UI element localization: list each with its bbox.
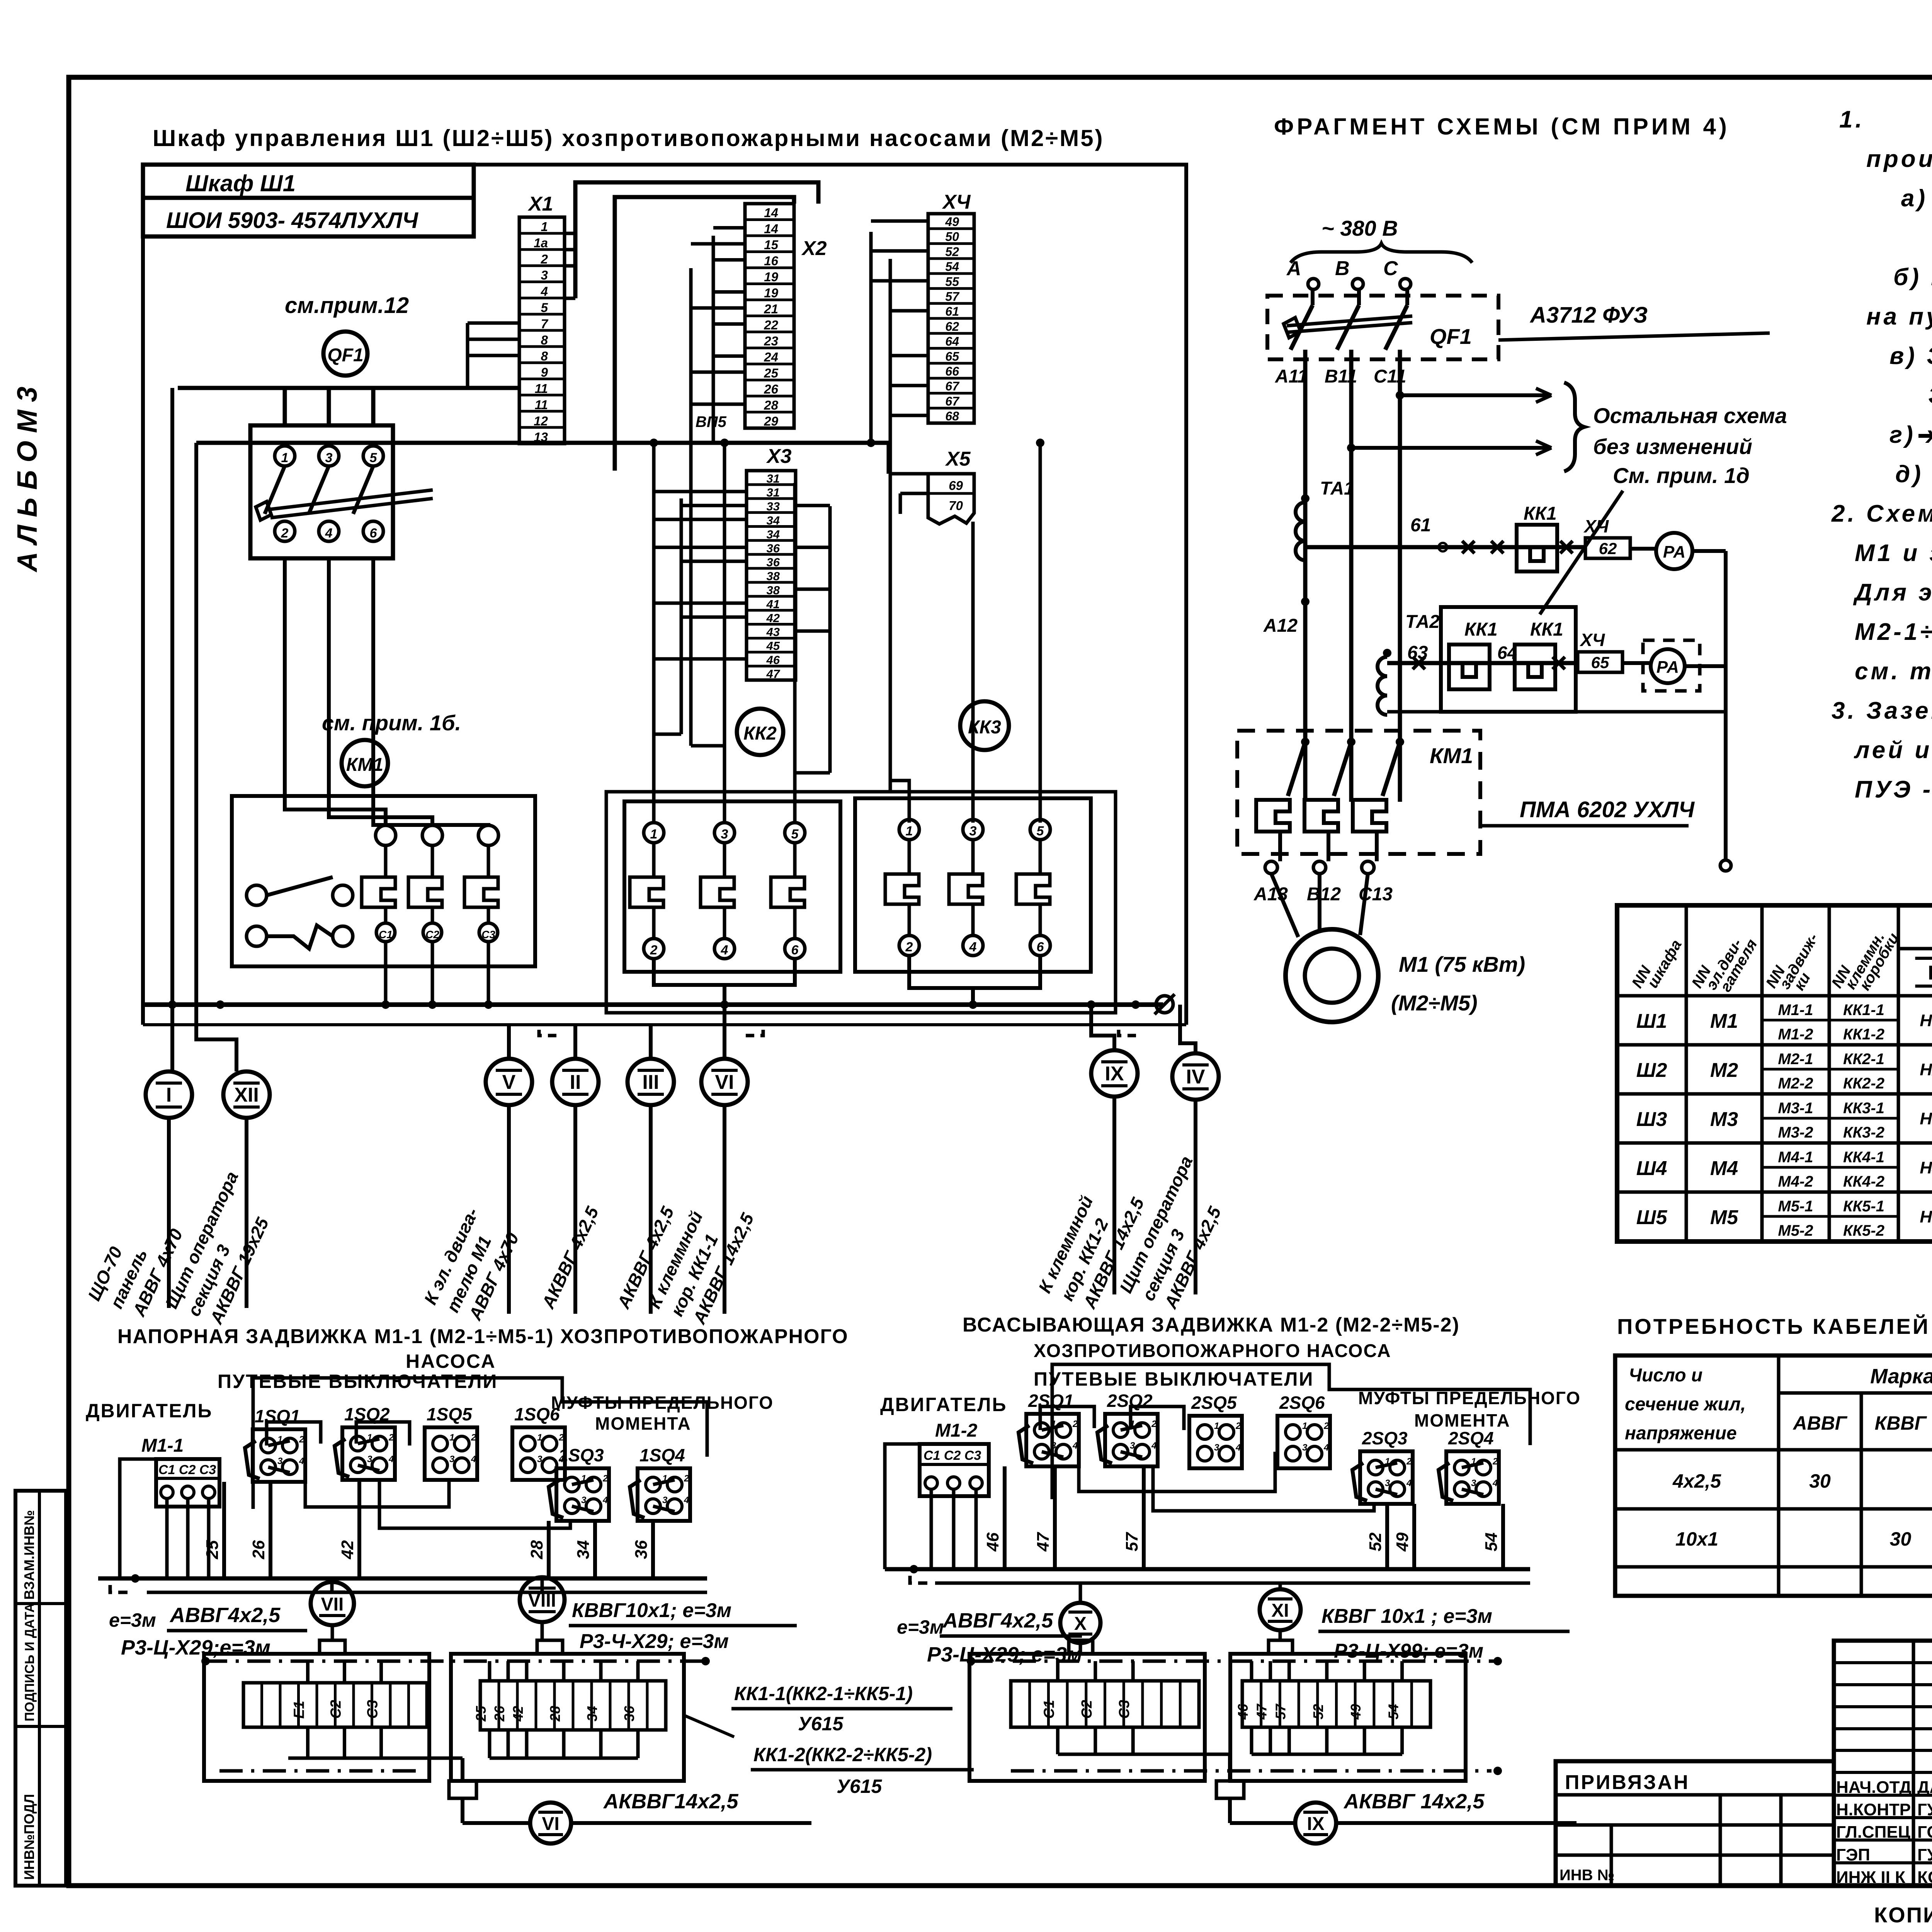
QF1 pole 1 — [275, 446, 295, 466]
numbered drop wires — [222, 1482, 226, 1578]
KK2 pole 3-4 — [714, 823, 735, 843]
svg-text:Н.КОНТР: Н.КОНТР — [1836, 1800, 1911, 1819]
svg-text:70: 70 — [949, 498, 963, 513]
svg-text:3: 3 — [325, 451, 333, 465]
svg-text:50: 50 — [945, 230, 959, 244]
cable circle VI low — [530, 1803, 571, 1844]
svg-text:ШОИ 5903- 4574ЛУХЛЧ: ШОИ 5903- 4574ЛУХЛЧ — [166, 208, 419, 233]
svg-text:57: 57 — [945, 290, 960, 304]
wire long horizontal feeder — [196, 441, 889, 445]
svg-text:ХЧ: ХЧ — [1583, 516, 1609, 536]
X1 right stub wires — [565, 232, 575, 235]
svg-text:КК1: КК1 — [1530, 619, 1563, 640]
svg-text:2: 2 — [281, 526, 289, 541]
svg-text:54: 54 — [1482, 1532, 1501, 1551]
svg-text:2: 2 — [1151, 1419, 1157, 1429]
svg-text:М2: М2 — [1710, 1059, 1738, 1082]
breaker QF1 box — [250, 425, 393, 558]
svg-text:36: 36 — [621, 1706, 637, 1721]
KM1 aux contact NO — [247, 885, 267, 905]
svg-text:57: 57 — [1122, 1532, 1141, 1551]
svg-text:д) закоротить концы 61-62, 63-: д) закоротить концы 61-62, 63-65; — [1895, 461, 1932, 488]
svg-text:61: 61 — [1410, 515, 1431, 536]
breaker QF1 designator circle — [323, 332, 367, 376]
svg-text:Н2: Н2 — [1920, 1060, 1932, 1079]
svg-text:55: 55 — [945, 275, 959, 289]
box4 wires — [1250, 1661, 1253, 1681]
svg-text:54: 54 — [945, 260, 959, 274]
svg-text:2. Схема подключения дана для: 2. Схема подключения дана для электродви… — [1831, 500, 1932, 527]
ammeter PA1 — [1630, 547, 1656, 551]
svg-text:49: 49 — [1348, 1704, 1364, 1720]
motor M1 — [1271, 874, 1298, 937]
strip in box4 — [1242, 1681, 1430, 1727]
svg-text:КК3-1: КК3-1 — [1843, 1100, 1884, 1117]
svg-text:М2-1÷М5-1, М2-2÷М5-2 схема ана: М2-1÷М5-1, М2-2÷М5-2 схема аналогична, — [1855, 619, 1932, 645]
svg-text:ГЛ.СПЕЦ: ГЛ.СПЕЦ — [1836, 1823, 1910, 1842]
svg-text:В: В — [1335, 257, 1350, 280]
wire loop upper 2 — [615, 197, 794, 471]
svg-text:Н4: Н4 — [1920, 1158, 1932, 1177]
svg-text:4: 4 — [1406, 1478, 1412, 1488]
svg-text:Р3-Ч-Х29; е=3м: Р3-Ч-Х29; е=3м — [580, 1630, 729, 1653]
svg-text:КК2-2: КК2-2 — [1843, 1075, 1884, 1092]
svg-text:14: 14 — [764, 222, 778, 236]
svg-text:КВВГ 10х1 ; е=3м: КВВГ 10х1 ; е=3м — [1321, 1605, 1492, 1628]
svg-text:X: X — [1074, 1614, 1087, 1634]
svg-text:А11: А11 — [1275, 366, 1308, 387]
svg-text:62: 62 — [1599, 539, 1617, 558]
svg-text:7: 7 — [541, 316, 549, 331]
cable circle II — [552, 1059, 599, 1105]
svg-text:МОМЕНТА: МОМЕНТА — [1414, 1410, 1510, 1430]
svg-text:4: 4 — [388, 1454, 394, 1464]
svg-text:Ш5: Ш5 — [1636, 1206, 1668, 1229]
KM1 blade — [1301, 738, 1310, 746]
svg-text:4: 4 — [299, 1456, 304, 1466]
svg-text:67: 67 — [945, 379, 960, 393]
svg-text:Число и: Число и — [1629, 1365, 1702, 1386]
wires below circles — [167, 1118, 171, 1308]
svg-text:У615: У615 — [798, 1713, 844, 1735]
phase wires down — [1303, 350, 1308, 802]
svg-text:VI: VI — [542, 1814, 559, 1834]
svg-text:III: III — [642, 1071, 659, 1094]
right return wire — [1724, 551, 1728, 860]
svg-text:2SQ6: 2SQ6 — [1279, 1393, 1325, 1413]
svg-text:НАПОРНАЯ ЗАДВИЖКА М1-1 (М2-1: НАПОРНАЯ ЗАДВИЖКА М1-1 (М2-1÷М5-1) ХОЗПР… — [117, 1325, 849, 1348]
svg-text:ДВИГАТЕЛЬ: ДВИГАТЕЛЬ — [880, 1394, 1007, 1415]
svg-text:С2: С2 — [1079, 1700, 1095, 1719]
svg-text:М1-2: М1-2 — [935, 1420, 978, 1441]
cable circle X — [1079, 1583, 1082, 1604]
svg-text:33: 33 — [767, 500, 780, 513]
contactor KM1 box — [232, 796, 535, 966]
KK3 pole 1-2 — [899, 820, 919, 840]
svg-text:Н5: Н5 — [1920, 1207, 1932, 1226]
svg-text:11: 11 — [535, 398, 548, 412]
svg-text:см.прим.12: см.прим.12 — [285, 293, 409, 318]
svg-text:КК5-1: КК5-1 — [1843, 1198, 1884, 1215]
svg-text:КОТОВА: КОТОВА — [1917, 1868, 1932, 1887]
svg-text:3. Заземление зануление шкафов: 3. Заземление зануление шкафов, электрод… — [1832, 697, 1932, 724]
svg-text:23: 23 — [764, 334, 778, 348]
cable circle IX — [1091, 1050, 1138, 1097]
svg-text:3: 3 — [541, 268, 548, 282]
X4 left trunk wires — [869, 232, 873, 443]
svg-text:8: 8 — [541, 349, 548, 363]
svg-text:М5: М5 — [1710, 1206, 1738, 1229]
relay KK3 box — [855, 798, 1091, 972]
svg-text:ХОЗПРОТИВОПОЖАРНОГО НАСОСА: ХОЗПРОТИВОПОЖАРНОГО НАСОСА — [1034, 1341, 1391, 1361]
svg-text:2: 2 — [1235, 1421, 1241, 1431]
svg-text:46: 46 — [983, 1532, 1002, 1552]
svg-text:QF1: QF1 — [1430, 324, 1472, 349]
svg-text:АВВГ4х2,5: АВВГ4х2,5 — [169, 1604, 281, 1627]
X2 left trunk wires — [712, 236, 715, 443]
svg-text:2: 2 — [1323, 1421, 1329, 1431]
svg-text:2: 2 — [388, 1432, 394, 1443]
svg-text:е=3м: е=3м — [897, 1616, 944, 1638]
svg-text:25: 25 — [764, 366, 778, 380]
svg-text:КК3-2: КК3-2 — [1843, 1124, 1884, 1141]
svg-text:28: 28 — [764, 398, 778, 412]
cable circle IV — [1172, 1053, 1219, 1100]
terminal box KK1-2 — [451, 1654, 684, 1781]
box1 wires — [306, 1661, 310, 1683]
KK2 bottom collector — [654, 959, 795, 1005]
KK2 pole 5-6 — [785, 823, 805, 843]
svg-text:Остальная схема: Остальная схема — [1593, 403, 1787, 428]
svg-text:е=3м: е=3м — [109, 1609, 156, 1631]
svg-text:Е1: Е1 — [291, 1701, 308, 1719]
svg-text:26: 26 — [249, 1540, 268, 1560]
svg-text:15: 15 — [764, 238, 778, 252]
svg-text:I: I — [166, 1084, 172, 1106]
svg-text:2: 2 — [1072, 1419, 1078, 1429]
svg-text:Ш4: Ш4 — [1636, 1157, 1667, 1180]
svg-text:19: 19 — [764, 286, 778, 300]
svg-text:ВСАСЫВАЮЩАЯ ЗАДВИЖКА М1-2 (М: ВСАСЫВАЮЩАЯ ЗАДВИЖКА М1-2 (М2-2÷М5-2) — [963, 1314, 1460, 1336]
cabinet bottom bus wire — [145, 1002, 1163, 1007]
svg-text:4: 4 — [684, 1495, 689, 1505]
svg-text:ГОЛЬЦМАН: ГОЛЬЦМАН — [1917, 1823, 1932, 1842]
svg-text:на пускатель ПМА 6202 УХЛЧ.: на пускатель ПМА 6202 УХЛЧ. — [1866, 303, 1932, 330]
svg-text:А: А — [1286, 257, 1301, 280]
svg-text:2: 2 — [905, 940, 913, 954]
svg-text:69: 69 — [949, 478, 963, 493]
svg-text:Р3-Ц-Х99; е=3м: Р3-Ц-Х99; е=3м — [1334, 1640, 1483, 1662]
cable circle III — [628, 1059, 674, 1105]
cable circle VIII — [541, 1578, 544, 1592]
KK feeder wires — [652, 443, 656, 823]
svg-text:34: 34 — [574, 1540, 593, 1559]
svg-text:16: 16 — [764, 254, 778, 268]
dash-dot bus box1 — [204, 1660, 707, 1663]
svg-text:38: 38 — [767, 570, 780, 583]
svg-text:КК1-2(КК2-2÷КК5-2): КК1-2(КК2-2÷КК5-2) — [753, 1744, 932, 1765]
drops to cable circles — [170, 1005, 174, 1071]
svg-text:ХЧ: ХЧ — [1579, 630, 1605, 650]
svg-text:КМ1: КМ1 — [1430, 743, 1473, 768]
svg-text:ПУЭ - 85§1-7-46.: ПУЭ - 85§1-7-46. — [1855, 776, 1932, 803]
svg-text:5: 5 — [370, 451, 378, 465]
svg-text:2: 2 — [541, 252, 548, 266]
svg-text:Э-365; кл. 1.5 , предел измере: Э-365; кл. 1.5 , предел измерений 0÷300А — [1928, 382, 1932, 409]
cable circle IX low — [1295, 1803, 1336, 1844]
svg-text:24: 24 — [764, 350, 778, 364]
svg-text:6: 6 — [791, 943, 799, 957]
ground symbol o-slash — [1156, 996, 1173, 1013]
svg-text:47: 47 — [1254, 1703, 1270, 1720]
svg-text:2: 2 — [650, 943, 658, 957]
svg-text:М4-2: М4-2 — [1778, 1173, 1813, 1190]
svg-text:Х2: Х2 — [801, 237, 827, 260]
svg-text:II: II — [570, 1071, 581, 1094]
svg-text:1: 1 — [541, 219, 548, 234]
svg-text:ГУСЕВА: ГУСЕВА — [1917, 1800, 1932, 1819]
brace under 380V — [1291, 243, 1472, 263]
KM1 pole 2 — [422, 825, 442, 845]
KM1 output terminals — [1265, 861, 1277, 874]
breaker QF1 dashed box — [1267, 296, 1498, 359]
svg-text:С1: С1 — [379, 929, 393, 940]
svg-text:25: 25 — [203, 1540, 222, 1560]
svg-text:~ 380 В: ~ 380 В — [1321, 216, 1398, 240]
svg-text:49: 49 — [945, 215, 959, 229]
bottom bus napornaya — [98, 1577, 707, 1581]
svg-text:ПОТРЕБНОСТЬ КАБЕЛЕЙ (ДЛИНА,М: ПОТРЕБНОСТЬ КАБЕЛЕЙ (ДЛИНА,М) — [1617, 1314, 1932, 1338]
svg-text:68: 68 — [945, 409, 959, 423]
dvigatel enclosure wire — [120, 1459, 156, 1578]
svg-text:11: 11 — [535, 381, 548, 396]
svg-text:Х5: Х5 — [945, 448, 971, 470]
svg-text:VIII: VIII — [528, 1590, 556, 1611]
label box ShOI 5903-4574LUHL4 — [143, 198, 474, 236]
svg-text:С2: С2 — [328, 1700, 344, 1719]
svg-text:26: 26 — [492, 1706, 507, 1722]
dashed hooks — [539, 1025, 556, 1036]
box2 wires — [488, 1661, 492, 1681]
svg-text:Шкаф управления Ш1 (Ш2÷Ш5) хоз: Шкаф управления Ш1 (Ш2÷Ш5) хозпротивопож… — [153, 125, 1104, 151]
svg-text:ИНЖ II К: ИНЖ II К — [1836, 1868, 1905, 1887]
svg-text:10х1: 10х1 — [1675, 1528, 1718, 1550]
row2 loop box — [1441, 607, 1576, 712]
KM1 pole 1 — [376, 825, 396, 845]
svg-text:4: 4 — [325, 526, 333, 541]
svg-text:2: 2 — [602, 1473, 608, 1484]
svg-text:КК1-1: КК1-1 — [1843, 1002, 1884, 1019]
svg-text:4: 4 — [602, 1495, 608, 1505]
svg-text:4: 4 — [1151, 1440, 1156, 1451]
svg-text:1.: 1. — [1839, 106, 1865, 133]
svg-text:Шкаф Ш1: Шкаф Ш1 — [185, 170, 296, 196]
svg-text:1SQ5: 1SQ5 — [427, 1404, 473, 1424]
svg-text:VI: VI — [715, 1071, 734, 1094]
wire QF1 pole drops — [283, 388, 287, 425]
svg-text:ДАНИЛОВ: ДАНИЛОВ — [1917, 1778, 1932, 1797]
svg-text:9: 9 — [541, 365, 548, 379]
svg-text:1: 1 — [650, 827, 658, 842]
svg-text:АВВГ: АВВГ — [1792, 1412, 1847, 1434]
svg-text:НАСОСА: НАСОСА — [406, 1350, 496, 1372]
cable circle VI — [701, 1059, 748, 1105]
svg-text:М3: М3 — [1710, 1108, 1738, 1131]
gland VIII — [537, 1640, 563, 1654]
svg-text:КВВГ: КВВГ — [1875, 1412, 1927, 1434]
svg-text:Для электродвигателей М2÷М5 и: Для электродвигателей М2÷М5 и задвижек — [1853, 579, 1932, 606]
svg-text:2: 2 — [471, 1432, 476, 1443]
svg-text:6: 6 — [1037, 940, 1044, 954]
svg-text:V: V — [502, 1071, 516, 1094]
svg-text:14: 14 — [764, 206, 778, 220]
svg-text:А Л Ь Б О М 3: А Л Ь Б О М 3 — [12, 387, 43, 573]
svg-text:М3-1: М3-1 — [1778, 1100, 1813, 1117]
numbered drop wires 2 — [1003, 1466, 1007, 1569]
svg-text:С3: С3 — [481, 929, 495, 940]
svg-text:34: 34 — [767, 514, 780, 527]
svg-text:Ш3: Ш3 — [1636, 1108, 1667, 1131]
svg-text:КК2: КК2 — [743, 723, 777, 744]
svg-text:52: 52 — [945, 245, 959, 259]
svg-text:47: 47 — [1034, 1532, 1053, 1552]
cable circle V — [486, 1059, 532, 1105]
svg-text:1: 1 — [906, 824, 913, 838]
svg-text:IX: IX — [1105, 1063, 1124, 1085]
cabinet right edge — [1184, 165, 1188, 1025]
svg-text:22: 22 — [764, 318, 778, 332]
svg-text:КК2-1: КК2-1 — [1843, 1051, 1884, 1068]
svg-text:28: 28 — [527, 1540, 546, 1560]
svg-text:2: 2 — [1406, 1456, 1412, 1467]
svg-text:XI: XI — [1271, 1600, 1289, 1621]
svg-text:6: 6 — [370, 526, 378, 541]
svg-text:36: 36 — [632, 1540, 651, 1559]
svg-text:12: 12 — [534, 414, 548, 428]
svg-text:б) Контактор КТ6043 СУЗ (КМ1): б) Контактор КТ6043 СУЗ (КМ1) заменить — [1893, 264, 1932, 291]
KM1 pole 3 — [478, 825, 498, 845]
svg-text:МОМЕНТА: МОМЕНТА — [595, 1413, 691, 1434]
dash-dot bus box3 — [969, 1660, 1499, 1663]
relay KK3 designator circle — [960, 701, 1009, 750]
svg-text:46: 46 — [766, 653, 780, 667]
left margin stamp strip — [15, 1491, 66, 1886]
svg-text:65: 65 — [1591, 653, 1609, 672]
svg-text:30: 30 — [1890, 1528, 1912, 1550]
svg-text:4: 4 — [1235, 1442, 1241, 1453]
svg-text:Х3: Х3 — [766, 445, 792, 468]
terminal box KK2-2b — [1230, 1654, 1466, 1781]
brace rest of schema — [1564, 383, 1584, 471]
svg-text:ВП5: ВП5 — [696, 413, 727, 430]
svg-text:М5-2: М5-2 — [1778, 1222, 1813, 1239]
svg-text:IV: IV — [1186, 1066, 1205, 1088]
svg-text:36: 36 — [767, 556, 780, 569]
svg-text:66: 66 — [945, 364, 959, 378]
terminal box KK1-2a — [969, 1654, 1205, 1781]
tap to rest of schema 2 — [1347, 444, 1355, 452]
interconnect wires vsas — [1040, 1406, 1094, 1430]
svg-text:5: 5 — [541, 301, 548, 315]
svg-text:М1-2: М1-2 — [1778, 1026, 1813, 1043]
svg-text:5: 5 — [791, 827, 799, 842]
tap to rest of schema 1 — [1396, 391, 1404, 400]
KK3 pole 5-6 — [1030, 820, 1050, 840]
svg-text:АВВГ4х2,5: АВВГ4х2,5 — [942, 1609, 1053, 1632]
svg-text:РА: РА — [1663, 543, 1685, 561]
svg-text:49: 49 — [1393, 1532, 1412, 1552]
gland VII — [320, 1640, 345, 1654]
svg-text:52: 52 — [1310, 1704, 1326, 1719]
bottom bus vsas — [885, 1567, 1530, 1571]
relay KK2 box — [624, 801, 840, 972]
svg-text:С3: С3 — [365, 1700, 381, 1719]
row2 bottom line — [1387, 710, 1726, 714]
svg-text:29: 29 — [764, 414, 778, 429]
svg-text:ФРАГМЕНТ СХЕМЫ (СМ ПРИМ 4): ФРАГМЕНТ СХЕМЫ (СМ ПРИМ 4) — [1274, 114, 1730, 139]
svg-text:произвести демонтаж:: произвести демонтаж: — [1866, 146, 1932, 172]
svg-text:Н3: Н3 — [1920, 1109, 1932, 1128]
svg-text:54: 54 — [1386, 1704, 1401, 1719]
svg-text:8: 8 — [541, 333, 548, 347]
svg-text:С3: С3 — [1116, 1700, 1133, 1719]
svg-text:31: 31 — [767, 486, 780, 499]
svg-text:34: 34 — [767, 527, 780, 541]
svg-text:64: 64 — [945, 335, 959, 349]
svg-text:62: 62 — [945, 320, 959, 333]
putevye enclosure 2 — [1052, 1364, 1530, 1499]
svg-text:2SQ4: 2SQ4 — [1448, 1428, 1494, 1448]
svg-text:сечение жил,: сечение жил, — [1625, 1394, 1746, 1415]
relay KK2 designator circle — [737, 709, 783, 755]
cable circle I — [146, 1071, 192, 1118]
svg-text:3: 3 — [721, 827, 728, 842]
label box Shkaf Sh1 — [143, 165, 474, 198]
svg-text:2: 2 — [299, 1434, 304, 1445]
svg-text:НАЧ.ОТД: НАЧ.ОТД — [1836, 1778, 1912, 1797]
dash-dot bus lower 2 — [1011, 1769, 1492, 1773]
svg-text:С1 С2 С3: С1 С2 С3 — [923, 1448, 981, 1463]
svg-text:АКВВГ 14х2,5: АКВВГ 14х2,5 — [1343, 1790, 1485, 1813]
svg-text:43: 43 — [766, 625, 780, 639]
svg-text:М1-1: М1-1 — [1778, 1002, 1813, 1019]
svg-text:г): г) — [1889, 422, 1916, 448]
svg-text:4: 4 — [1323, 1442, 1329, 1453]
svg-text:см. прим. 1б.: см. прим. 1б. — [322, 711, 461, 735]
svg-text:КОПИРОВАЛ: Коршунова: КОПИРОВАЛ: Коршунова — [1874, 1903, 1932, 1927]
svg-text:М1: М1 — [1710, 1010, 1738, 1032]
svg-text:АКВВГ14х2,5: АКВВГ14х2,5 — [603, 1790, 738, 1813]
svg-text:РА: РА — [1656, 658, 1679, 677]
box3 wires — [1056, 1661, 1060, 1681]
svg-text:4: 4 — [471, 1454, 476, 1464]
svg-text:2: 2 — [1492, 1456, 1498, 1467]
svg-text:М2-2: М2-2 — [1778, 1075, 1813, 1092]
svg-text:(М2÷М5): (М2÷М5) — [1391, 991, 1478, 1015]
svg-text:38: 38 — [767, 583, 780, 597]
svg-text:С: С — [1383, 257, 1398, 280]
svg-text:ТА1: ТА1 — [1320, 478, 1354, 499]
svg-text:34: 34 — [584, 1706, 600, 1721]
demand table grid — [1615, 1355, 1932, 1596]
svg-text:19: 19 — [764, 270, 778, 284]
svg-text:М3-2: М3-2 — [1778, 1124, 1813, 1141]
svg-text:42: 42 — [510, 1706, 526, 1722]
svg-text:42: 42 — [338, 1540, 357, 1560]
svg-text:57: 57 — [1272, 1703, 1288, 1719]
svg-text:КК1-2: КК1-2 — [1843, 1026, 1884, 1043]
svg-text:С2: С2 — [425, 929, 439, 940]
